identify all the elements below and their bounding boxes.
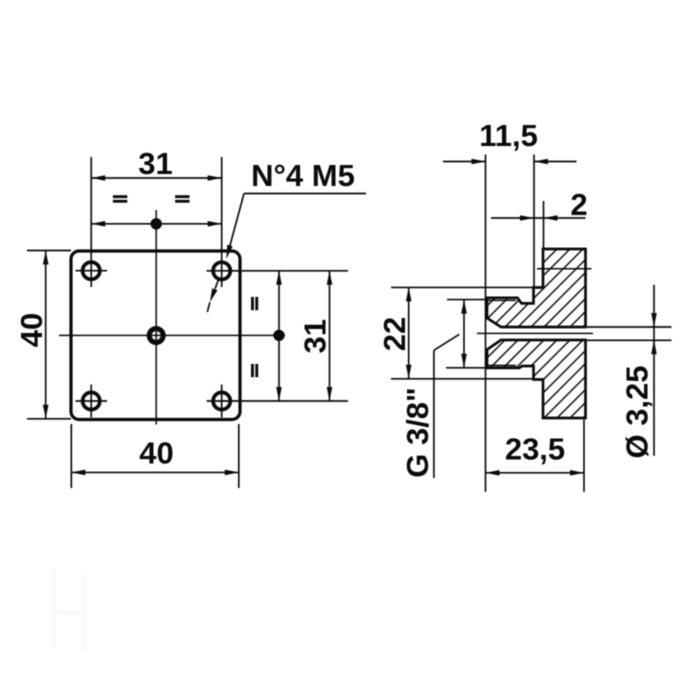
hole top-left crosshair bbox=[76, 157, 108, 287]
dim 40 bottom: dimension line bbox=[71, 471, 239, 473]
dim 23,5: dimension line bbox=[486, 472, 585, 474]
plate vertical centerline bbox=[155, 210, 157, 425]
dim 3,25: dimension line bbox=[653, 285, 655, 456]
dim 3,25: top arrow bbox=[651, 313, 657, 327]
label G 3/8: leader vertical bbox=[433, 350, 435, 478]
section hole axis bbox=[537, 268, 592, 270]
dim 23,5: right arrow bbox=[570, 470, 584, 476]
symmetry dim top: center dot bbox=[151, 218, 162, 229]
dim 31 top: left arrow bbox=[91, 175, 105, 181]
dim 40 left: top arrow bbox=[43, 251, 49, 265]
symmetry dim right: line bbox=[278, 271, 280, 401]
dim 11,5: left arrow bbox=[472, 159, 486, 165]
svg-text:22: 22 bbox=[377, 317, 412, 351]
svg-text:Ø 3,25: Ø 3,25 bbox=[620, 365, 655, 458]
svg-text:N°4 M5: N°4 M5 bbox=[251, 158, 355, 193]
hole top-right crosshair bbox=[207, 157, 349, 287]
dim 23,5: left arrow bbox=[486, 470, 500, 476]
section top half bbox=[487, 249, 586, 327]
dim 11,5: extension line right bbox=[533, 155, 535, 289]
dim 11,5: extension line left bbox=[485, 155, 487, 492]
dim 40 left: extension lines bbox=[27, 251, 71, 419]
symmetry dim right: top arrow bbox=[276, 271, 282, 285]
boss diameter dim: extension lines bbox=[446, 300, 486, 368]
boss diameter dim: top arrow bbox=[461, 300, 467, 314]
dim 31 right: dimension line bbox=[329, 271, 331, 401]
symmetry dim top: line bbox=[91, 223, 222, 225]
symmetry dim top: right arrow bbox=[208, 221, 222, 227]
watermark H bbox=[54, 568, 85, 652]
symmetry dim right: equal sign lower bbox=[251, 364, 258, 377]
hole bottom-left crosshair bbox=[76, 385, 108, 418]
dim 40 bottom: right arrow bbox=[225, 470, 239, 476]
dim 3,25: bottom arrow bbox=[651, 340, 657, 354]
svg-text:11,5: 11,5 bbox=[479, 118, 538, 153]
dim 2: extension line right bbox=[543, 201, 545, 248]
dim 22: bottom arrow bbox=[406, 365, 412, 379]
plate outline bbox=[71, 251, 240, 420]
dim 40 left: dimension line bbox=[45, 251, 47, 419]
dim 40 left: bottom arrow bbox=[43, 405, 49, 419]
dim 3,25: extension lines bbox=[587, 327, 672, 340]
hole bottom-right crosshair bbox=[207, 385, 349, 418]
section bottom half bbox=[487, 340, 586, 418]
dim 2: dimension line bbox=[491, 217, 586, 219]
label N4 M5 leader line bbox=[229, 194, 245, 252]
svg-text:2: 2 bbox=[570, 187, 587, 222]
svg-text:31: 31 bbox=[298, 319, 333, 353]
thread minor line top bbox=[488, 299, 516, 301]
svg-text:G 3/8": G 3/8" bbox=[400, 387, 435, 478]
symmetry dim top: equal sign left bbox=[113, 195, 127, 203]
label N4 M5 leader arrow bbox=[226, 245, 232, 259]
svg-text:40: 40 bbox=[139, 436, 173, 471]
svg-text:40: 40 bbox=[14, 313, 49, 347]
hole bottom-left bbox=[83, 392, 100, 409]
dim 22: top arrow bbox=[406, 287, 412, 301]
section centerline bbox=[477, 332, 593, 334]
svg-text:23,5: 23,5 bbox=[505, 432, 565, 467]
symmetry dim right: bottom arrow bbox=[276, 387, 282, 401]
dim 31 top: dimension line bbox=[91, 177, 222, 179]
thread minor line bottom bbox=[488, 364, 516, 366]
dim 31 right: top arrow bbox=[327, 271, 333, 285]
label N4 M5 leader lower segment bbox=[215, 280, 218, 289]
dim 2: right arrow bbox=[544, 215, 558, 221]
symmetry dim top: left arrow bbox=[91, 221, 105, 227]
dim 22: extension lines bbox=[391, 287, 533, 378]
dim 2: left arrow bbox=[520, 215, 534, 221]
symmetry dim right: equal sign upper bbox=[251, 297, 258, 310]
svg-text:31: 31 bbox=[138, 146, 172, 181]
dim 22: dimension line bbox=[408, 287, 410, 378]
dim 40 bottom: left arrow bbox=[71, 470, 85, 476]
dim 11,5: dimension line bbox=[443, 161, 577, 163]
boss diameter dim: dimension line bbox=[463, 300, 465, 368]
hole top-right bbox=[213, 262, 230, 279]
plate horizontal centerline bbox=[59, 334, 285, 336]
center hole bbox=[149, 329, 163, 343]
label G 3/8: leader diagonal bbox=[434, 334, 459, 350]
hole bottom-right bbox=[213, 392, 230, 409]
dim 31 top: right arrow bbox=[208, 175, 222, 181]
boss diameter dim: bottom arrow bbox=[461, 354, 467, 368]
dim 40 bottom: extension lines bbox=[71, 424, 239, 488]
symmetry dim top: equal sign right bbox=[175, 195, 189, 203]
dim 31 right: bottom arrow bbox=[327, 387, 333, 401]
label N4 M5 leader lower arrow bbox=[210, 288, 218, 302]
dim 23,5: extension line right bbox=[583, 420, 585, 493]
label N4 M5 leader tail bbox=[207, 302, 210, 312]
dim 11,5: right arrow bbox=[534, 159, 548, 165]
hole top-left bbox=[83, 262, 100, 279]
symmetry dim right: center dot bbox=[273, 330, 284, 341]
label N4 M5 underline bbox=[244, 193, 366, 195]
